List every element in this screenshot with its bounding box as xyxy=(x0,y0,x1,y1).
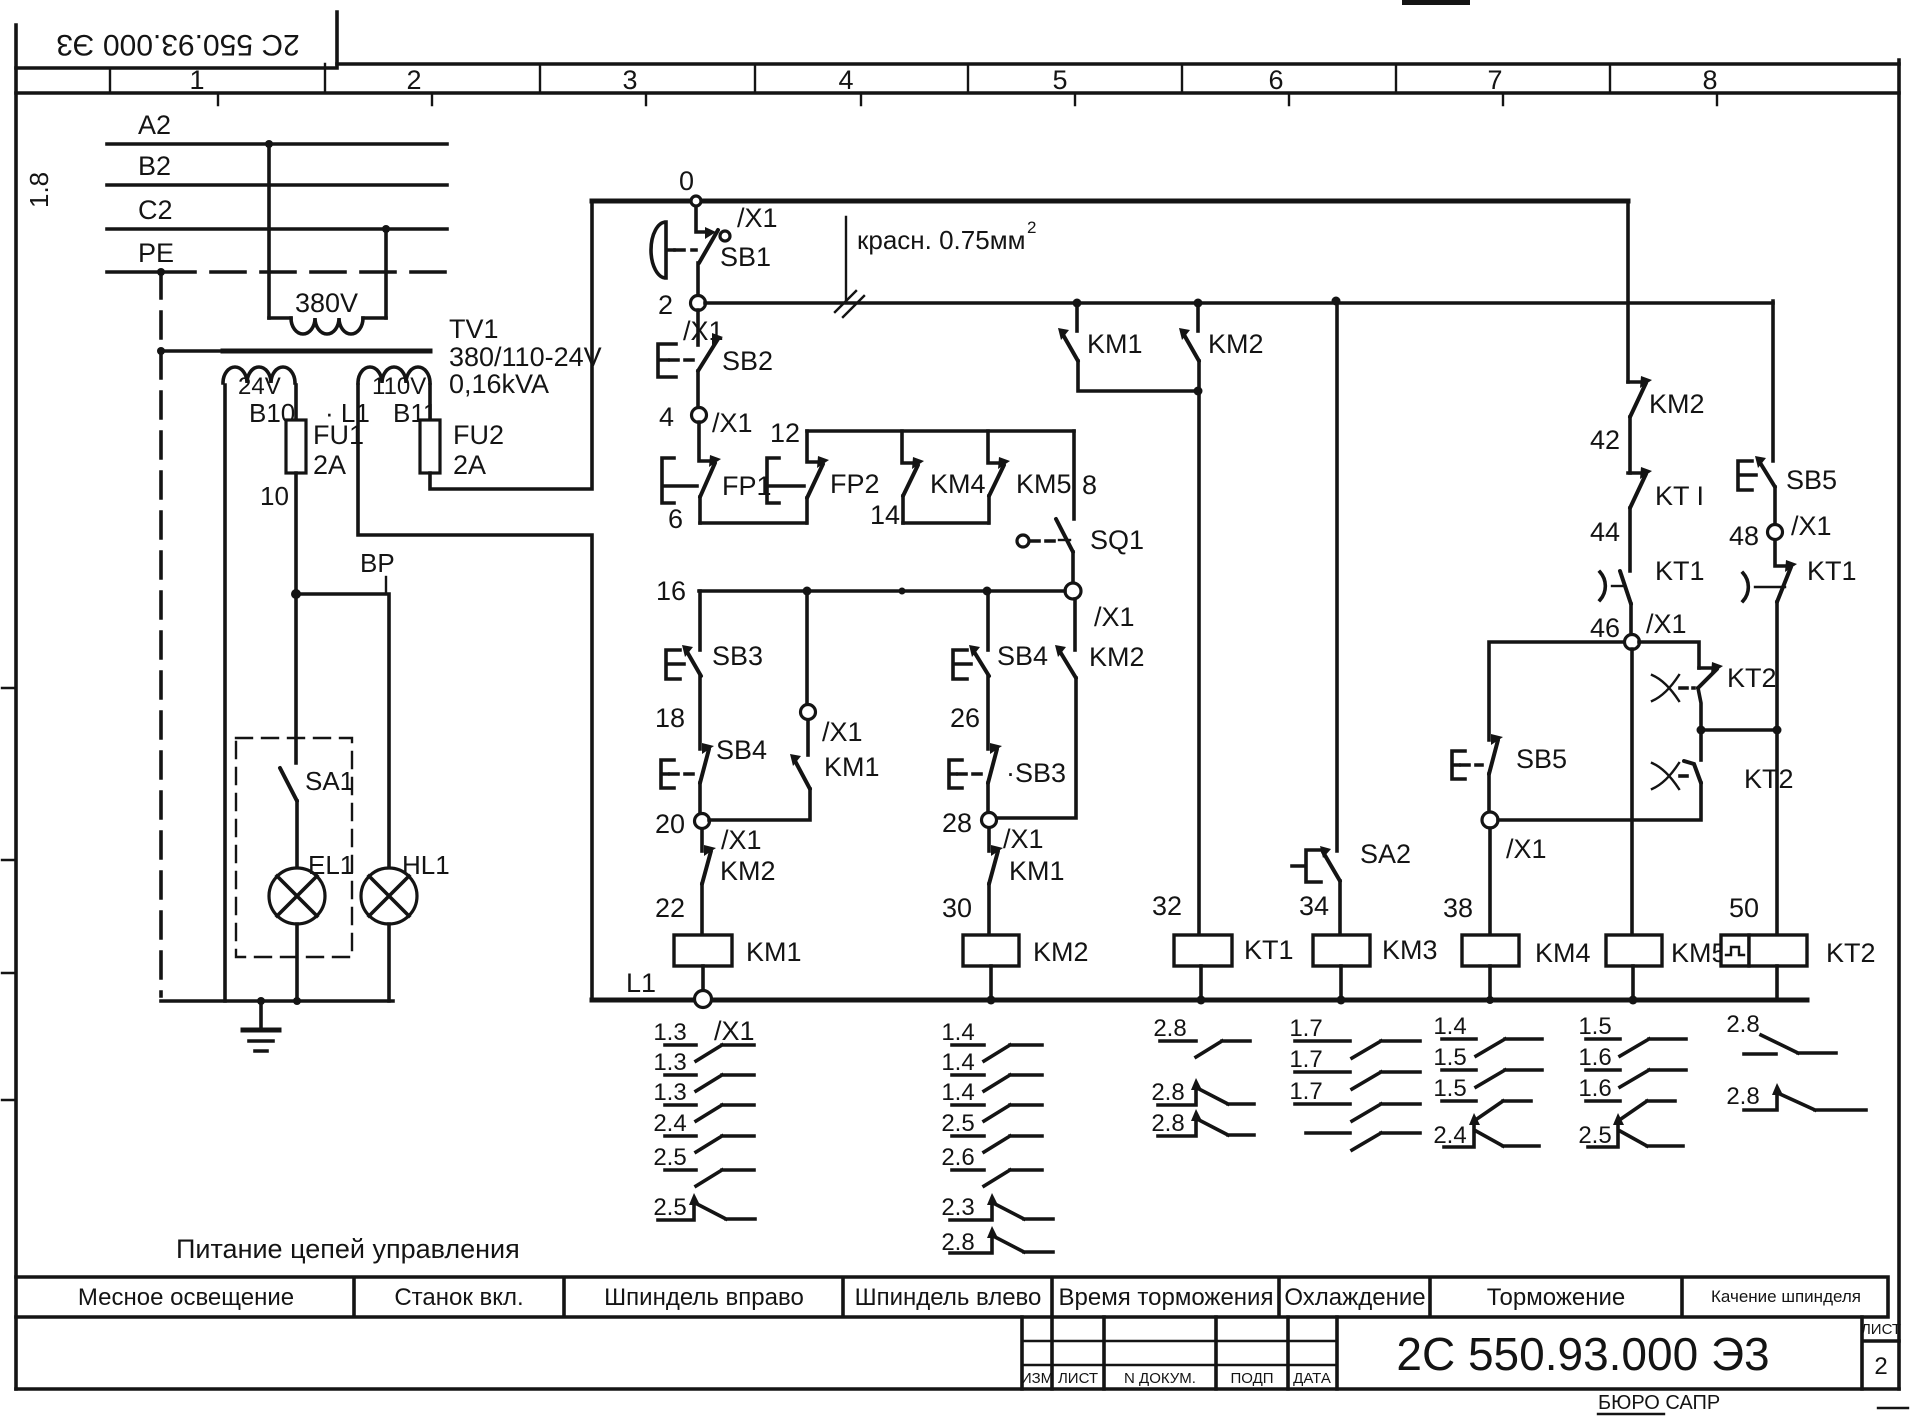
svg-text:32: 32 xyxy=(1152,891,1182,921)
svg-text:SB3: SB3 xyxy=(712,641,763,671)
svg-text:KM2: KM2 xyxy=(1208,329,1264,359)
wire BP branch to HL1 xyxy=(296,594,389,868)
svg-text:Месное освещение: Месное освещение xyxy=(78,1284,294,1311)
sheet number box xyxy=(1862,1317,1899,1389)
svg-text:6: 6 xyxy=(668,504,683,534)
svg-text:38: 38 xyxy=(1443,893,1473,923)
rail node 16 xyxy=(699,589,1065,593)
svg-text:1.6: 1.6 xyxy=(1578,1044,1611,1071)
contactor contact KM2 (NO self-hold) xyxy=(1059,650,1076,678)
svg-text:8: 8 xyxy=(1082,470,1097,500)
svg-text:Торможение: Торможение xyxy=(1487,1284,1625,1311)
svg-text:2A: 2A xyxy=(453,450,486,480)
svg-text:1.4: 1.4 xyxy=(941,1019,974,1046)
switch SA1 xyxy=(294,594,298,763)
svg-text:48: 48 xyxy=(1729,521,1759,551)
svg-text:1.5: 1.5 xyxy=(1433,1075,1466,1102)
wire node 46 right xyxy=(1639,642,1699,668)
svg-text:2.5: 2.5 xyxy=(941,1110,974,1137)
button SB3 (NO) xyxy=(686,650,701,676)
svg-text:KT1: KT1 xyxy=(1244,935,1294,965)
svg-text:14: 14 xyxy=(870,500,900,530)
frame: left border fold ticks xyxy=(2,688,16,1100)
svg-text:SB5: SB5 xyxy=(1516,744,1567,774)
svg-text:16: 16 xyxy=(656,576,686,606)
relay contact KT1 (timed NO) right xyxy=(1775,540,1788,566)
svg-text:KM2: KM2 xyxy=(720,856,776,886)
PE dashed drop wire xyxy=(159,272,163,996)
svg-text:ИЗМ: ИЗМ xyxy=(1021,1370,1053,1387)
svg-text:20: 20 xyxy=(655,809,685,839)
node 16 terminal circle /X1 xyxy=(1065,583,1081,599)
svg-text:SA2: SA2 xyxy=(1360,839,1411,869)
svg-text:380/110-24V: 380/110-24V xyxy=(449,342,602,372)
svg-text:/X1: /X1 xyxy=(714,1016,755,1046)
svg-text:1.8: 1.8 xyxy=(24,172,54,208)
node on rail 2 xyxy=(1073,299,1082,308)
svg-text:2.8: 2.8 xyxy=(1151,1110,1184,1137)
coil KM2 xyxy=(963,935,1019,966)
button SB3 (NC) xyxy=(990,743,1002,754)
function row frame xyxy=(16,1277,1888,1317)
frame: right border xyxy=(1897,60,1901,1389)
svg-text:ЛИСТ: ЛИСТ xyxy=(1861,1321,1901,1338)
button SB4 (NO) xyxy=(973,650,989,676)
svg-text:4: 4 xyxy=(838,65,853,95)
svg-text:1: 1 xyxy=(189,65,204,95)
svg-text:SA1: SA1 xyxy=(305,766,354,796)
svg-text:2.8: 2.8 xyxy=(1153,1015,1186,1042)
wire down to coil KT1 xyxy=(1197,391,1201,935)
node BP leader tick xyxy=(385,577,387,592)
header strip with column numbers xyxy=(16,64,1899,93)
svg-text:2: 2 xyxy=(658,290,673,320)
svg-text:2: 2 xyxy=(1027,218,1036,237)
svg-text:/X1: /X1 xyxy=(737,203,778,233)
wire rail16 to SB3 xyxy=(698,591,702,650)
svg-text:1.7: 1.7 xyxy=(1289,1078,1322,1105)
dashed enclosure box around SA1 EL1 xyxy=(236,738,352,957)
svg-text:1.4: 1.4 xyxy=(1433,1013,1466,1040)
coil KT2 with delay element xyxy=(1721,935,1749,966)
svg-text:KM5: KM5 xyxy=(1016,469,1072,499)
svg-text:34: 34 xyxy=(1299,891,1329,921)
wire node 46 down to coil KM5 xyxy=(1630,649,1634,935)
svg-text:KM4: KM4 xyxy=(1535,938,1591,968)
svg-text:2.5: 2.5 xyxy=(1578,1122,1611,1149)
svg-text:Станок вкл.: Станок вкл. xyxy=(394,1284,523,1311)
wire 10 below FU1 xyxy=(294,473,298,594)
svg-text:ПОДП: ПОДП xyxy=(1230,1370,1273,1387)
svg-text:2: 2 xyxy=(1874,1353,1887,1380)
svg-text:2С 550.93.000 Э3: 2С 550.93.000 Э3 xyxy=(1396,1328,1769,1380)
svg-text:2: 2 xyxy=(406,65,421,95)
svg-text:FP1: FP1 xyxy=(722,471,772,501)
coil KM1 xyxy=(674,935,732,966)
wire 8 drop xyxy=(1072,431,1076,519)
button SB2 xyxy=(696,310,700,345)
svg-text:1.7: 1.7 xyxy=(1289,1015,1322,1042)
phase line C2 xyxy=(107,227,447,231)
svg-text:KM2: KM2 xyxy=(1649,389,1705,419)
svg-text:/X1: /X1 xyxy=(1094,602,1135,632)
rail node 12 xyxy=(807,429,1074,433)
button SB1 (mushroom head) xyxy=(705,227,716,239)
svg-text:Шпиндель вправо: Шпиндель вправо xyxy=(604,1284,804,1311)
svg-text:KM1: KM1 xyxy=(746,937,802,967)
svg-text:N ДОКУМ.: N ДОКУМ. xyxy=(1124,1370,1196,1387)
node 2 xyxy=(691,296,706,311)
svg-text:BP: BP xyxy=(360,548,395,578)
svg-text:3: 3 xyxy=(622,65,637,95)
svg-text:30: 30 xyxy=(942,893,972,923)
junction to SB5-48 branch xyxy=(1697,726,1706,735)
limit switch SQ1 xyxy=(1056,519,1073,552)
svg-text:PE: PE xyxy=(138,238,174,268)
svg-text:18: 18 xyxy=(655,703,685,733)
svg-text:2С 550.93.000 Э3: 2С 550.93.000 Э3 xyxy=(56,28,299,61)
svg-text:/X1: /X1 xyxy=(1506,834,1547,864)
frame: bottom border xyxy=(16,1387,1899,1391)
node wire10 branch BP xyxy=(291,589,301,599)
svg-text:БЮРО САПР: БЮРО САПР xyxy=(1598,1392,1720,1414)
TV1 secondary winding 110V B11 xyxy=(358,367,430,383)
svg-text:KM2: KM2 xyxy=(1033,937,1089,967)
svg-text:/X1: /X1 xyxy=(712,408,753,438)
svg-text:110V: 110V xyxy=(372,373,426,400)
contactor contact KM2 (NO) xyxy=(1196,303,1200,331)
svg-text:2A: 2A xyxy=(313,450,346,480)
svg-text:SB1: SB1 xyxy=(720,242,771,272)
wire B10 right end to FU1 xyxy=(294,385,298,420)
svg-text:6: 6 xyxy=(1268,65,1283,95)
svg-text:4: 4 xyxy=(659,402,674,432)
svg-text:10: 10 xyxy=(260,481,289,511)
svg-text:1.4: 1.4 xyxy=(941,1049,974,1076)
svg-text:KM1: KM1 xyxy=(824,752,880,782)
svg-text:380V: 380V xyxy=(295,288,358,318)
node on C2 feeding transformer xyxy=(382,225,390,233)
svg-text:1.5: 1.5 xyxy=(1433,1044,1466,1071)
svg-text:2.8: 2.8 xyxy=(1726,1011,1759,1038)
contactor contact KM2 (NC) 42 xyxy=(1628,380,1643,384)
svg-text:L1: L1 xyxy=(626,968,656,998)
svg-text:2.8: 2.8 xyxy=(1151,1079,1184,1106)
svg-text:/X1: /X1 xyxy=(822,717,863,747)
svg-text:24V: 24V xyxy=(238,373,281,400)
wire A2 to TV1 primary xyxy=(267,144,271,318)
coil KM5 xyxy=(1606,935,1662,966)
contactor contact KM1 (NO) xyxy=(1075,303,1079,331)
node /X1 on rail L1 xyxy=(695,991,712,1008)
svg-text:7: 7 xyxy=(1487,65,1502,95)
node on PE xyxy=(157,268,165,276)
svg-text:KM5: KM5 xyxy=(1671,938,1727,968)
fuse FU1 2A xyxy=(286,420,306,473)
svg-text:KT1: KT1 xyxy=(1655,556,1705,586)
svg-text:2.4: 2.4 xyxy=(653,1110,686,1137)
svg-text:0: 0 xyxy=(679,166,694,196)
svg-text:2.3: 2.3 xyxy=(941,1194,974,1221)
bottom earth rail xyxy=(161,999,393,1003)
transformer TV1 primary winding 380V xyxy=(269,316,386,320)
svg-text:46: 46 xyxy=(1590,613,1620,643)
wire HL1 to bottom rail xyxy=(387,924,391,1001)
self hold branch KM2 xyxy=(1073,599,1077,650)
relay contact KT2 (timed NC) xyxy=(1699,666,1714,670)
svg-text:50: 50 xyxy=(1729,893,1759,923)
switch SA2 xyxy=(1323,852,1340,881)
wire node 46 to left branch xyxy=(1489,642,1624,740)
top rail node 0 xyxy=(592,199,1628,204)
wire B10 left end down xyxy=(223,385,227,1001)
svg-text:KM4: KM4 xyxy=(930,469,986,499)
svg-text:ЛИСТ: ЛИСТ xyxy=(1058,1370,1098,1387)
svg-text:1.3: 1.3 xyxy=(653,1019,686,1046)
svg-text:Качение шпинделя: Качение шпинделя xyxy=(1711,1287,1861,1306)
contactor contact KM2 (NC interlock) xyxy=(700,829,704,851)
wire rail16 to SB4 xyxy=(986,591,990,650)
svg-text:KM1: KM1 xyxy=(1009,856,1065,886)
wire marker annotation red 0.75mm2 xyxy=(845,217,847,302)
svg-text:28: 28 xyxy=(942,808,972,838)
svg-text:12: 12 xyxy=(770,418,800,448)
wire B11 left end down to control L1 rail xyxy=(358,385,592,1000)
svg-text:2.4: 2.4 xyxy=(1433,1122,1466,1149)
svg-text:KM3: KM3 xyxy=(1382,935,1438,965)
svg-text:/X1: /X1 xyxy=(1003,824,1044,854)
node on A2 feeding transformer xyxy=(265,140,273,148)
contactor contact KM1 (NO self-hold) xyxy=(794,759,810,789)
svg-text:26: 26 xyxy=(950,703,980,733)
svg-text:/X1: /X1 xyxy=(721,825,762,855)
scan smudge bottom right xyxy=(1878,1407,1908,1409)
svg-text:1.7: 1.7 xyxy=(1289,1046,1322,1073)
svg-text:Питание цепей управления: Питание цепей управления xyxy=(176,1234,520,1264)
svg-text:5: 5 xyxy=(1052,65,1067,95)
svg-text:ДАТА: ДАТА xyxy=(1293,1370,1331,1387)
scan artifact bar top right xyxy=(1402,0,1470,5)
wire node 0 down right side xyxy=(1626,201,1630,382)
svg-text:8: 8 xyxy=(1702,65,1717,95)
coil KT1 xyxy=(1174,935,1232,966)
contactor contact KM1 (NC interlock) xyxy=(987,828,991,851)
node 28 xyxy=(982,813,997,828)
button SB5 (NC) xyxy=(1491,734,1503,745)
self hold branch /X1 KM1 xyxy=(805,591,809,705)
coil KM4 xyxy=(1462,935,1519,966)
svg-text:1.3: 1.3 xyxy=(653,1049,686,1076)
svg-text:2.8: 2.8 xyxy=(1726,1083,1759,1110)
svg-text:0,16kVA: 0,16kVA xyxy=(449,369,549,399)
svg-text:TV1: TV1 xyxy=(449,314,499,344)
svg-text:/X1: /X1 xyxy=(1791,511,1832,541)
wire FU2 output to control top rail xyxy=(430,201,592,489)
svg-text:KT2: KT2 xyxy=(1826,938,1876,968)
svg-text:22: 22 xyxy=(655,893,685,923)
node 48 /X1 xyxy=(1768,525,1783,540)
coil KM3 xyxy=(1313,935,1370,966)
relay contact KT1 (timed NO) xyxy=(1600,572,1605,600)
svg-text:KM1: KM1 xyxy=(1087,329,1143,359)
svg-text:SB4: SB4 xyxy=(716,735,767,765)
phase line B2 xyxy=(107,183,447,187)
svg-text:SQ1: SQ1 xyxy=(1090,525,1144,555)
svg-text:2.6: 2.6 xyxy=(941,1144,974,1171)
phase line A2 xyxy=(107,142,447,146)
wire EL1 to bottom rail xyxy=(295,924,299,1001)
svg-text:KT1: KT1 xyxy=(1807,556,1857,586)
lamp HL1 xyxy=(361,868,417,924)
svg-text:красн. 0.75мм: красн. 0.75мм xyxy=(857,225,1025,255)
svg-text:42: 42 xyxy=(1590,425,1620,455)
svg-text:FP2: FP2 xyxy=(830,469,880,499)
svg-text:B2: B2 xyxy=(138,151,171,181)
svg-text:FU2: FU2 xyxy=(453,420,504,450)
relay contact KT2 (timed NO) xyxy=(1699,730,1703,760)
junction node 32 branch xyxy=(1194,387,1203,396)
svg-text:44: 44 xyxy=(1590,517,1620,547)
svg-text:SB5: SB5 xyxy=(1786,465,1837,495)
ground symbol xyxy=(259,1001,263,1030)
svg-text:A2: A2 xyxy=(138,110,171,140)
svg-text:KT2: KT2 xyxy=(1744,764,1794,794)
node PE to core xyxy=(157,347,165,355)
thermal relay contact FP1 xyxy=(699,422,712,461)
frame: left border xyxy=(14,25,18,1389)
wire PE node to winding B10 xyxy=(161,349,223,353)
TV1 secondary winding 24V B10 xyxy=(223,367,295,383)
svg-text:2.5: 2.5 xyxy=(653,1144,686,1171)
svg-text:·SB3: ·SB3 xyxy=(1006,758,1066,788)
svg-text:SB4: SB4 xyxy=(997,641,1048,671)
node 46 /X1 xyxy=(1625,635,1640,650)
button SB5 (NO) xyxy=(1759,461,1775,487)
contactor contact KM4 (NO) xyxy=(902,431,915,463)
node /X1 above KM4 xyxy=(1482,812,1498,828)
fuse FU2 2A xyxy=(420,420,440,473)
wire down to coil KT2 xyxy=(1775,733,1779,935)
wire B11 right end to FU2 xyxy=(428,385,432,420)
svg-text:Охлаждение: Охлаждение xyxy=(1284,1284,1425,1311)
node 4 xyxy=(692,408,707,423)
lamp EL1 xyxy=(269,868,325,924)
svg-text:2.5: 2.5 xyxy=(653,1194,686,1221)
svg-text:/X1: /X1 xyxy=(1646,609,1687,639)
contactor contact KM5 (NO) xyxy=(988,431,1001,463)
node on rail 2 xyxy=(1194,299,1203,308)
title stamp box top-left (rotated doc number) xyxy=(16,12,337,68)
svg-text:HL1: HL1 xyxy=(402,850,450,880)
svg-text:1.6: 1.6 xyxy=(1578,1075,1611,1102)
wire node 6 xyxy=(700,521,806,525)
button SB4 (NC) xyxy=(702,743,714,754)
svg-text:1.4: 1.4 xyxy=(941,1079,974,1106)
svg-text:SB2: SB2 xyxy=(722,346,773,376)
rail node 2 xyxy=(705,301,1773,305)
wire C2 to TV1 primary xyxy=(384,229,388,318)
protective earth line PE xyxy=(107,270,161,274)
wire node 14 xyxy=(903,521,988,525)
node 20 xyxy=(695,814,710,829)
svg-text:1.3: 1.3 xyxy=(653,1079,686,1106)
thermal relay contact FP2 xyxy=(807,431,820,462)
svg-text:KT I: KT I xyxy=(1655,481,1704,511)
transformer TV1 core xyxy=(223,349,430,354)
svg-text:EL1: EL1 xyxy=(308,850,354,880)
svg-text:C2: C2 xyxy=(138,195,173,225)
svg-text:Время торможения: Время торможения xyxy=(1059,1284,1274,1311)
svg-text:KT2: KT2 xyxy=(1727,663,1777,693)
svg-text:Шпиндель влево: Шпиндель влево xyxy=(855,1284,1042,1311)
svg-text:KM2: KM2 xyxy=(1089,642,1145,672)
relay contact KT1 (NC) 44 xyxy=(1628,471,1643,475)
wire node 0 drop xyxy=(696,206,707,232)
node 0 terminal circle xyxy=(691,196,701,206)
ruler ticks under header strip xyxy=(218,93,1717,105)
svg-text:1.5: 1.5 xyxy=(1578,1013,1611,1040)
